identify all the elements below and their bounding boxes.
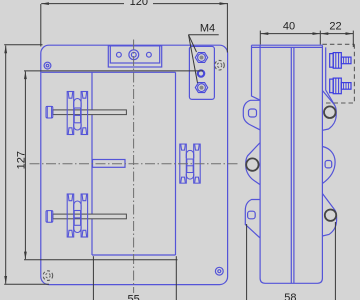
svg-text:127: 127 [15,151,27,169]
svg-text:120: 120 [130,0,148,8]
svg-text:58: 58 [284,292,296,300]
svg-text:40: 40 [283,21,295,33]
svg-text:55: 55 [127,294,139,300]
svg-text:M4: M4 [200,22,215,34]
svg-text:22: 22 [329,21,341,33]
